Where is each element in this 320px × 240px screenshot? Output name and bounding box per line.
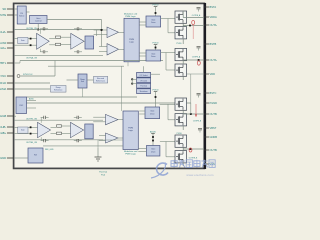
svg-text:Select: Select: [19, 15, 25, 18]
svg-text:SYNC/CLK: SYNC/CLK: [23, 74, 33, 76]
svg-text:OUTPB_ON: OUTPB_ON: [26, 118, 38, 120]
svg-text:OUTB-: OUTB-: [210, 148, 218, 152]
svg-text:www.elecfans.com: www.elecfans.com: [186, 173, 214, 177]
svg-text:VBST: VBST: [210, 126, 217, 130]
svg-text:CHA-: CHA-: [0, 30, 6, 34]
svg-text:AVDD: AVDD: [29, 98, 35, 101]
svg-text:OUTA+: OUTA+: [210, 23, 218, 27]
svg-text:Gate: Gate: [151, 19, 155, 22]
svg-text:PGND: PGND: [210, 101, 218, 105]
svg-text:OC Select: OC Select: [139, 74, 148, 77]
svg-text:CHA+: CHA+: [0, 46, 7, 50]
svg-text:Control: Control: [35, 19, 42, 22]
svg-text:OUTNB_ON: OUTNB_ON: [26, 142, 38, 144]
svg-text:Gain: Gain: [21, 40, 25, 42]
svg-text:VDD: VDD: [210, 72, 216, 76]
svg-text:Gate: Gate: [150, 110, 154, 113]
svg-text:Gain: Gain: [21, 130, 25, 132]
svg-text:OUTFE_A: OUTFE_A: [192, 56, 201, 59]
svg-text:Drive: Drive: [150, 112, 154, 115]
svg-text:BSTB: BSTB: [210, 42, 217, 46]
svg-text:OUTA-: OUTA-: [210, 58, 218, 62]
svg-text:Modulator and: Modulator and: [124, 150, 138, 153]
svg-text:Drive: Drive: [151, 21, 155, 24]
svg-text:Logic: Logic: [128, 130, 133, 132]
svg-text:OUTFE_B: OUTFE_B: [193, 121, 202, 123]
svg-text:AGND: AGND: [0, 156, 6, 160]
svg-text:Drive: Drive: [151, 55, 155, 58]
svg-text:VDDA: VDDA: [210, 15, 217, 19]
svg-text:CHB-: CHB-: [0, 125, 6, 129]
svg-text:CHB+: CHB+: [0, 131, 7, 135]
svg-text:OSC: OSC: [19, 105, 24, 107]
svg-text:PVDD: PVDD: [177, 133, 183, 135]
svg-text:OUTRE_A: OUTRE_A: [192, 14, 201, 17]
svg-text:References: References: [96, 80, 105, 82]
svg-text:AVDD: AVDD: [150, 130, 156, 133]
svg-text:RFLD: RFLD: [0, 81, 6, 85]
svg-text:Logic: Logic: [129, 42, 134, 44]
svg-text:SYNC: SYNC: [0, 74, 6, 78]
svg-text:Reference: Reference: [54, 90, 62, 92]
svg-text:Thermal: Thermal: [140, 86, 147, 88]
svg-text:Gate: Gate: [151, 148, 155, 151]
svg-text:PVDD: PVDD: [176, 43, 182, 45]
svg-text:PLIMA: PLIMA: [0, 87, 6, 91]
svg-text:OUTNA_ON: OUTNA_ON: [26, 56, 38, 59]
svg-text:Drive: Drive: [151, 150, 155, 153]
svg-text:BSTC: BSTC: [210, 91, 217, 95]
svg-text:SD: SD: [2, 7, 6, 11]
svg-text:OUTPA_ON: OUTPA_ON: [26, 27, 37, 30]
svg-text:BSTA: BSTA: [210, 5, 217, 9]
svg-text:OUTRE_B: OUTRE_B: [189, 158, 198, 160]
svg-text:PBTL: PBTL: [0, 61, 7, 65]
svg-text:Gen: Gen: [81, 81, 84, 83]
svg-text:GAIN0: GAIN0: [0, 41, 7, 45]
svg-text:Thermal: Thermal: [99, 171, 108, 174]
svg-text:CHGB: CHGB: [0, 114, 6, 118]
svg-text:Ref: Ref: [34, 155, 37, 157]
svg-text:Modulator and: Modulator and: [124, 13, 138, 16]
svg-text:GNDB: GNDB: [210, 135, 218, 139]
svg-text:MUTE: MUTE: [0, 13, 6, 17]
svg-text:PWM Logic: PWM Logic: [125, 16, 136, 18]
svg-text:Gate: Gate: [151, 53, 155, 56]
svg-text:OUTB+: OUTB+: [210, 112, 218, 116]
svg-text:REF_GND: REF_GND: [45, 149, 54, 151]
svg-text:PWM Logic: PWM Logic: [125, 154, 136, 156]
svg-text:Shutdown: Shutdown: [140, 90, 148, 93]
svg-text:OV Limit: OV Limit: [140, 79, 147, 82]
